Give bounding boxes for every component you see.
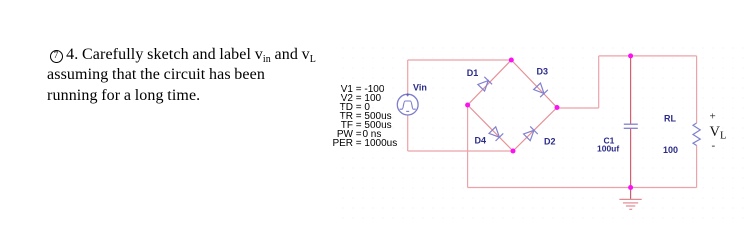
node: ground rail junction	[628, 185, 633, 190]
wire: bridge right node horizontal stub	[557, 107, 599, 109]
diode D4	[489, 126, 504, 141]
wire: bridge edge left node to top node (through D1)	[468, 60, 512, 105]
diode D2	[523, 126, 538, 141]
wire: riser from right node stub to top rail	[598, 56, 600, 108]
faint schematic grid dots (decorative)	[338, 43, 748, 227]
svg-text:Vin: Vin	[413, 83, 427, 93]
source parameter list	[329, 85, 397, 148]
node: bridge bottom junction	[511, 149, 516, 154]
wire: bridge edge left node to bottom node (through D4)	[468, 105, 513, 151]
svg-text:D3: D3	[537, 67, 549, 77]
wire: top rail	[599, 55, 697, 57]
diode D1	[477, 77, 492, 92]
svg-text:RL: RL	[664, 114, 676, 124]
capacitor C1 plates	[624, 124, 638, 128]
wire: C1 bottom lead	[630, 129, 632, 188]
svg-text:100: 100	[663, 145, 678, 155]
node: bridge top junction	[509, 58, 514, 63]
wire: drop from bridge left node to bottom rail	[467, 105, 469, 188]
wire: bridge edge bottom node to right node (through D2)	[513, 108, 557, 152]
svg-text:100uf: 100uf	[597, 144, 619, 154]
svg-text:D4: D4	[475, 136, 487, 146]
svg-text:D1: D1	[467, 68, 479, 78]
node: C1 top rail junction	[628, 53, 633, 58]
svg-text:D2: D2	[544, 137, 556, 147]
diode D3	[533, 83, 548, 98]
svg-text:-: -	[712, 140, 716, 152]
wire: Vin bottom lead vertical	[407, 115, 409, 151]
wire: bridge edge top node to right node (through D3)	[511, 60, 557, 108]
node: bridge left junction	[465, 103, 470, 108]
source minus mark	[406, 110, 409, 112]
source Vin (VPULSE symbol)	[397, 94, 418, 115]
wire: top horizontal from Vin to bridge top node	[408, 59, 512, 61]
source plus mark	[406, 93, 409, 96]
problem statement text	[47, 45, 316, 107]
wire: bottom horizontal from Vin to bridge bottom node	[408, 150, 513, 152]
svg-text:+: +	[710, 111, 716, 123]
ground symbol	[619, 188, 641, 210]
wire: RL branch top lead	[696, 56, 698, 123]
wire: RL branch bottom lead	[696, 146, 698, 188]
resistor RL zigzag	[693, 123, 700, 146]
wire: C1 top lead	[630, 56, 632, 124]
wire: Vin top lead vertical	[407, 60, 409, 94]
node: bridge right junction	[555, 105, 560, 110]
wire: bottom rail	[468, 187, 697, 189]
